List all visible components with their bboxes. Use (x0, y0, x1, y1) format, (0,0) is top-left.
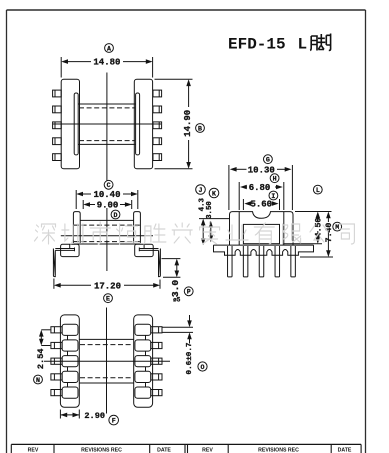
svg-text:M: M (335, 224, 339, 231)
svg-text:D: D (114, 212, 118, 219)
svg-text:P: P (187, 289, 191, 296)
svg-text:REVISIONS REC: REVISIONS REC (81, 448, 122, 453)
svg-text:J: J (199, 187, 203, 194)
svg-text:14.80: 14.80 (93, 58, 120, 68)
svg-text:6.80: 6.80 (249, 183, 271, 193)
svg-text:L: L (298, 36, 308, 54)
svg-text:2.54: 2.54 (36, 348, 46, 369)
svg-text:E: E (106, 296, 110, 303)
svg-text:4.50: 4.50 (315, 218, 324, 238)
svg-text:B: B (198, 125, 202, 132)
svg-text:H: H (273, 176, 277, 183)
svg-text:3.0: 3.0 (170, 280, 181, 298)
svg-text:DATE: DATE (338, 448, 352, 453)
svg-text:REV: REV (202, 448, 213, 453)
svg-text:9.00: 9.00 (97, 201, 119, 211)
svg-text:3.50: 3.50 (206, 201, 214, 219)
svg-text:REVISIONS REC: REVISIONS REC (258, 448, 299, 453)
svg-text:EFD-15: EFD-15 (228, 36, 286, 54)
svg-text:17.20: 17.20 (94, 281, 121, 291)
svg-text:L: L (316, 187, 320, 194)
svg-text:O: O (201, 364, 205, 371)
svg-text:I: I (271, 193, 275, 200)
svg-text:0.6±0.7: 0.6±0.7 (186, 342, 194, 374)
svg-text:A: A (107, 45, 111, 52)
svg-text:K: K (212, 190, 216, 197)
svg-text:2.90: 2.90 (84, 411, 105, 421)
svg-text:G: G (266, 157, 270, 164)
svg-text:C: C (107, 182, 111, 189)
svg-text:N: N (36, 377, 40, 384)
svg-text:REV: REV (28, 448, 39, 453)
svg-text:DATE: DATE (157, 448, 171, 453)
svg-text:10.40: 10.40 (93, 190, 120, 200)
svg-text:14.90: 14.90 (183, 110, 193, 137)
svg-text:ø5: ø5 (173, 297, 181, 304)
svg-text:4.3: 4.3 (198, 197, 206, 211)
svg-text:5.60: 5.60 (250, 200, 272, 210)
svg-text:10.30: 10.30 (248, 165, 275, 175)
svg-text:F: F (112, 417, 116, 424)
